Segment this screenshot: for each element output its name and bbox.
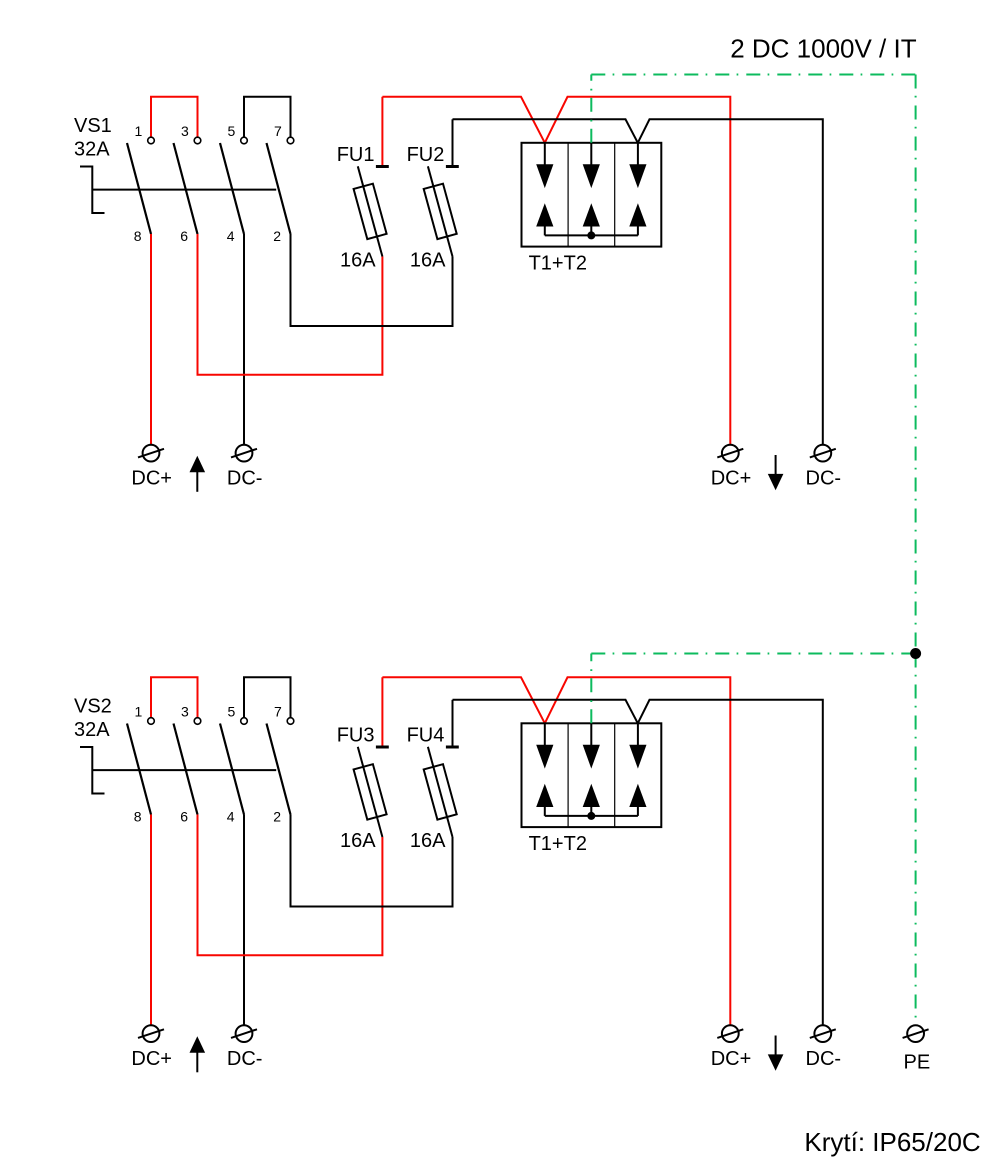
svg-text:FU3: FU3 — [337, 725, 375, 747]
svg-text:PE: PE — [904, 1051, 931, 1073]
svg-text:Krytí: IP65/20C: Krytí: IP65/20C — [804, 1127, 980, 1157]
svg-text:FU2: FU2 — [407, 144, 445, 166]
svg-text:VS1: VS1 — [74, 115, 112, 137]
svg-text:FU1: FU1 — [337, 144, 375, 166]
svg-text:2 DC 1000V / IT: 2 DC 1000V / IT — [730, 33, 917, 63]
svg-text:VS2: VS2 — [74, 695, 112, 717]
svg-text:FU4: FU4 — [407, 725, 445, 747]
